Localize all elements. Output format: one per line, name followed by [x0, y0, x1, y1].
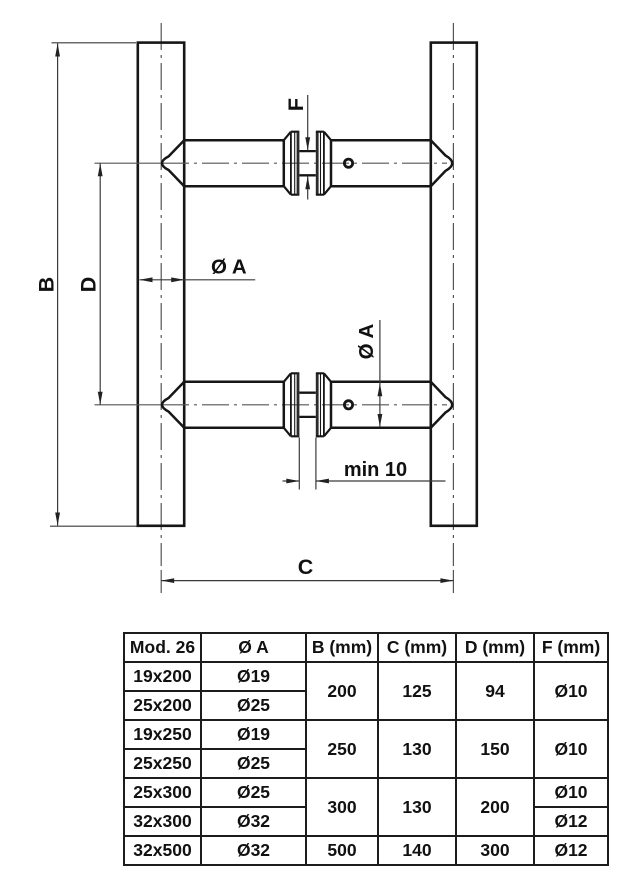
top arm centerline	[95, 162, 448, 164]
svg-text:F: F	[284, 98, 308, 111]
right tube	[431, 43, 477, 526]
dimension C	[161, 580, 453, 582]
bottom arm centerline	[95, 404, 448, 406]
dimension min 10	[283, 438, 446, 490]
dimension B	[50, 43, 137, 526]
top arm screw hole	[344, 159, 352, 167]
svg-text:D: D	[76, 277, 100, 293]
svg-text:min 10: min 10	[344, 459, 407, 481]
specification table	[123, 632, 609, 866]
dimension A (bottom arm diameter)	[379, 320, 381, 427]
right tube centerline	[452, 23, 454, 593]
dimension F	[307, 95, 309, 200]
dimension A (left tube diameter)	[140, 279, 256, 281]
svg-text:Ø A: Ø A	[211, 256, 247, 279]
svg-text:B: B	[35, 277, 59, 293]
bottom arm screw hole	[344, 401, 352, 409]
svg-text:C: C	[298, 555, 314, 579]
bottom arm	[162, 373, 452, 436]
left tube centerline	[160, 23, 162, 593]
dimension D	[99, 163, 101, 405]
top arm	[162, 132, 452, 195]
svg-text:Ø A: Ø A	[355, 323, 378, 359]
left tube	[138, 43, 184, 526]
